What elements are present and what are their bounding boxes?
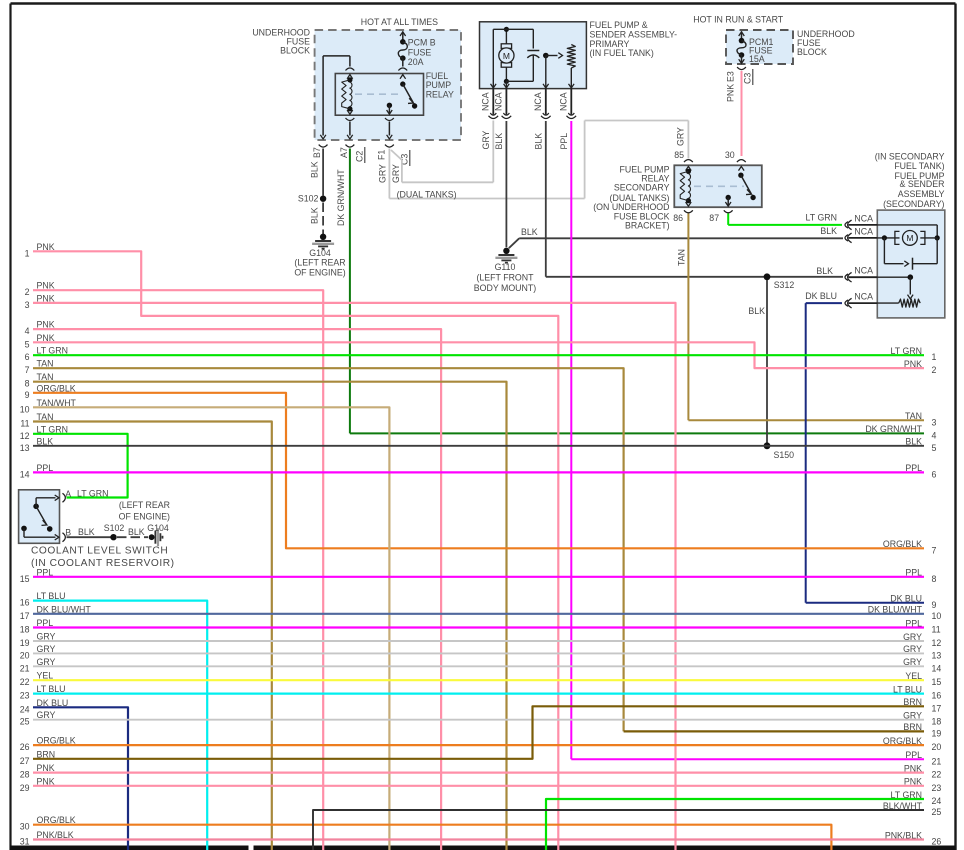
svg-text:24: 24: [20, 704, 30, 714]
label BLK (S312-S150 wire): [748, 306, 765, 316]
svg-text:BLK: BLK: [748, 306, 765, 316]
svg-text:30: 30: [725, 150, 735, 160]
svg-text:PPL: PPL: [559, 133, 569, 150]
wire DK BLU secondary sender to right row 9: [806, 303, 924, 603]
svg-text:COOLANT LEVEL SWITCH: COOLANT LEVEL SWITCH: [31, 546, 168, 557]
connector label C3 (primary): [400, 150, 410, 166]
svg-text:BLK: BLK: [820, 226, 837, 236]
svg-text:22: 22: [932, 770, 942, 780]
right wire 8 label: [905, 568, 936, 584]
underhood fuse block (PCM1, dashed box): [726, 30, 793, 64]
svg-text:& SENDER: & SENDER: [900, 179, 945, 189]
svg-text:14: 14: [20, 469, 30, 479]
svg-text:GRY: GRY: [37, 644, 56, 654]
svg-text:NCA: NCA: [854, 266, 873, 276]
label COOLANT LEVEL SWITCH (IN COOLANT RESERVOIR): [31, 546, 175, 570]
svg-text:16: 16: [932, 691, 942, 701]
svg-text:21: 21: [20, 663, 30, 673]
labels NCA (primary pump): [481, 92, 569, 111]
svg-text:C3: C3: [743, 73, 753, 84]
motor M2 secondary fuel pump: [877, 225, 940, 245]
svg-text:BLK: BLK: [521, 227, 538, 237]
left wire 31 label: [20, 830, 74, 847]
label GRY (F1 wire): [378, 164, 388, 183]
label (LEFT REAR OF ENGINE) (coolant): [119, 500, 170, 522]
capacitor C1 primary: [527, 51, 539, 62]
svg-text:17: 17: [20, 611, 30, 621]
left wire 14 label: [20, 463, 54, 480]
fuse PCM B 20A: [398, 32, 407, 67]
right wire 3 label: [905, 411, 936, 427]
right wire 16 label: [893, 684, 941, 700]
svg-text:GRY: GRY: [481, 130, 491, 149]
svg-text:(IN FUEL TANK): (IN FUEL TANK): [590, 48, 654, 58]
svg-text:DK BLU: DK BLU: [805, 291, 837, 301]
svg-text:(ON UNDERHOOD: (ON UNDERHOOD: [593, 202, 669, 212]
left wire 8 label: [25, 372, 54, 389]
capacitor C2 secondary loop: [884, 238, 937, 270]
left wire 24 label: [20, 698, 69, 715]
svg-text:19: 19: [932, 728, 942, 738]
label DK GRN/WHT (A7 wire): [336, 169, 346, 226]
svg-text:M: M: [906, 233, 913, 243]
svg-text:20: 20: [932, 742, 942, 752]
svg-text:28: 28: [20, 770, 30, 780]
svg-text:BLK: BLK: [128, 527, 145, 537]
svg-text:20A: 20A: [408, 57, 424, 67]
connector label C3 (PCM1): [743, 69, 753, 85]
left wire 29 label: [20, 776, 55, 793]
svg-text:(IN COOLANT RESERVOIR): (IN COOLANT RESERVOIR): [31, 558, 175, 569]
relay U2 fuel pump relay secondary box: [674, 165, 762, 207]
svg-text:S150: S150: [774, 450, 795, 460]
svg-text:OF ENGINE): OF ENGINE): [119, 512, 170, 522]
labels GRY BLK BLK PPL (primary pump wires): [481, 130, 569, 149]
wire PPL primary sender to right row 21: [571, 121, 924, 759]
svg-text:21: 21: [932, 756, 942, 766]
left wire 6 label: [25, 346, 68, 363]
left wire 7 label: [25, 359, 54, 376]
left wire 18 label: [20, 618, 54, 635]
svg-text:NCA: NCA: [481, 92, 491, 111]
svg-text:8: 8: [25, 379, 30, 389]
wire 21 GRY to right row 14: [33, 665, 924, 667]
label TAN (relay 86 wire): [677, 249, 687, 266]
label LT GRN (pin A wire): [77, 489, 108, 499]
wire LT GRN into secondary box: [0, 0, 1, 1]
wire 4 PNK: [33, 329, 441, 850]
svg-text:PCM B: PCM B: [408, 37, 436, 47]
svg-text:15: 15: [932, 677, 942, 687]
wire BLK primary pump 2 to S312: [546, 121, 843, 277]
labels LT GRN BLK BLK DK BLU (secondary box wires): [805, 213, 837, 301]
pin 87 connector: [709, 210, 732, 223]
wire LT GRN bottom to right row 24: [546, 799, 924, 850]
svg-text:25: 25: [932, 807, 942, 817]
wire 17 DK BLU/WHT to right row 10: [33, 613, 924, 615]
svg-text:GRY: GRY: [391, 164, 401, 183]
svg-text:3: 3: [932, 417, 937, 427]
label (IN SECONDARY FUEL TANK) FUEL PUMP & SENDER ASSEMBLY (SECONDARY): [875, 151, 945, 209]
svg-text:13: 13: [20, 443, 30, 453]
right wire 18 label: [903, 711, 941, 727]
svg-text:27: 27: [20, 756, 30, 766]
pin label F1: [377, 150, 387, 160]
relay primary pin arrows at box edges: [346, 68, 408, 121]
svg-text:13: 13: [932, 650, 942, 660]
svg-text:G110: G110: [495, 262, 516, 272]
wire 20 GRY to right row 13: [33, 652, 924, 654]
right wire 9 label: [890, 594, 936, 610]
right wire 25 label: [883, 801, 942, 817]
svg-text:GRY: GRY: [37, 657, 56, 667]
labels NCA (secondary box): [854, 214, 873, 302]
svg-text:3: 3: [25, 300, 30, 310]
svg-text:G104: G104: [309, 248, 331, 258]
left wire 1 label: [25, 242, 55, 258]
label PCM B FUSE 20A: [408, 37, 436, 67]
svg-text:23: 23: [20, 691, 30, 701]
svg-text:11: 11: [932, 625, 941, 635]
svg-text:31: 31: [20, 837, 30, 847]
svg-text:FUEL TANK): FUEL TANK): [894, 161, 944, 171]
label BLK (S102-G104 coolant): [128, 527, 145, 537]
svg-text:GRY: GRY: [676, 127, 686, 146]
label BLK (G110 bus): [521, 227, 538, 237]
svg-text:TAN: TAN: [905, 411, 922, 421]
svg-text:18: 18: [20, 625, 30, 635]
svg-text:NCA: NCA: [854, 214, 873, 224]
right wire 26 label: [885, 830, 942, 846]
right wire 11 label: [905, 618, 940, 634]
label FUEL PUMP & SENDER ASSEMBLY-PRIMARY (IN FUEL TANK): [590, 20, 678, 58]
splice S150: [764, 442, 795, 460]
wire LT GRN relay 87 to secondary pump: [728, 214, 842, 225]
label FUEL PUMP RELAY SECONDARY (DUAL TANKS) (ON UNDERHOOD FUSE BLOCK BRACKET): [593, 164, 669, 230]
svg-text:GRY: GRY: [378, 164, 388, 183]
left wire 12 label: [20, 424, 68, 441]
fuse PCM1 15A: [737, 32, 746, 70]
wire 2 PNK: [33, 290, 323, 850]
svg-text:7: 7: [25, 365, 30, 375]
label G104 (coolant): [147, 523, 169, 533]
bottom border bar: [10, 846, 956, 850]
svg-text:11: 11: [20, 419, 29, 429]
svg-text:BLK: BLK: [533, 133, 543, 150]
svg-text:5: 5: [25, 339, 30, 349]
right wire 2 label: [904, 359, 937, 375]
svg-text:DK BLU: DK BLU: [890, 594, 922, 604]
right wire 22 label: [904, 763, 941, 779]
right wire 17 label: [903, 697, 941, 713]
label G110 (LEFT FRONT BODY MOUNT): [474, 262, 536, 293]
svg-text:M: M: [503, 51, 510, 61]
connector label C2: [355, 147, 365, 163]
wire DK GRN/WHT A7 to right row 4: [350, 149, 924, 434]
left wire 9 label: [25, 383, 76, 400]
coolant switch pin arrows: [55, 493, 66, 541]
svg-text:DK GRN/WHT: DK GRN/WHT: [865, 424, 922, 434]
svg-text:RELAY: RELAY: [426, 89, 454, 99]
svg-text:HOT AT ALL TIMES: HOT AT ALL TIMES: [361, 17, 438, 27]
svg-text:E3: E3: [726, 71, 736, 82]
splice S312: [764, 273, 795, 290]
relay secondary coil: [680, 169, 691, 203]
relay primary internal dashed link: [355, 93, 399, 95]
splice S102 (coolant): [104, 523, 125, 540]
label GRY (C3 wire): [391, 164, 401, 183]
wire 18 PPL to right row 11: [33, 626, 924, 628]
fuse block bottom edge exit arrows: [319, 135, 394, 147]
wire BLK S312 to S150: [766, 280, 768, 446]
left wire 22 label: [20, 671, 54, 688]
svg-text:NCA: NCA: [494, 92, 504, 111]
left wire 10 label: [20, 398, 77, 415]
svg-text:17: 17: [932, 703, 942, 713]
svg-text:(LEFT REAR: (LEFT REAR: [294, 258, 345, 268]
left wire 30 label: [20, 815, 76, 832]
right wire 24 label: [891, 790, 942, 806]
svg-text:HOT IN RUN & START: HOT IN RUN & START: [693, 15, 784, 25]
label FUEL PUMP RELAY (primary): [426, 71, 454, 99]
wire 9 ORG/BLK to right row 7: [33, 393, 924, 549]
relay secondary switch: [726, 173, 756, 206]
svg-text:SECONDARY: SECONDARY: [614, 183, 670, 193]
wire 15 PPL to right row 8: [33, 576, 924, 578]
svg-text:F1: F1: [377, 150, 387, 160]
label UNDERHOOD FUSE BLOCK (left): [252, 27, 310, 55]
svg-text:ASSEMBLY: ASSEMBLY: [898, 189, 945, 199]
label PNK (PCM1 wire): [726, 84, 736, 102]
svg-text:29: 29: [20, 783, 30, 793]
svg-text:NCA: NCA: [533, 92, 543, 111]
wire BLK dashed S102 to G104: [322, 203, 324, 235]
right wire 10 label: [868, 605, 942, 621]
svg-text:20: 20: [20, 650, 30, 660]
svg-text:30: 30: [20, 822, 30, 832]
relay secondary internal dashed link: [694, 185, 744, 187]
right wire 5 label: [905, 437, 936, 453]
resistor R1 fuel level sender primary: [567, 45, 575, 89]
svg-text:PPL: PPL: [905, 750, 922, 760]
wire 6 LT GRN to right row 1: [33, 354, 924, 356]
wire 22 YEL to right row 15: [33, 679, 924, 681]
right wire 15 label: [905, 671, 941, 687]
wire 26 ORG/BLK to right row 20: [33, 744, 924, 746]
fuel pump and sender assembly secondary box: [877, 210, 945, 318]
left wire 27 label: [20, 749, 55, 766]
wire GRY C3 branch to primary pump GRY: [391, 121, 493, 183]
left wire 2 label: [25, 281, 55, 298]
left wire 13 label: [20, 436, 54, 453]
pin label A: [65, 489, 71, 499]
svg-text:NCA: NCA: [559, 92, 569, 111]
relay primary coil: [342, 77, 353, 111]
wire GRY F1 to relay 85 (DUAL TANKS): [389, 121, 688, 199]
label G104 (LEFT REAR OF ENGINE): [294, 248, 345, 277]
left wire 25 label: [20, 710, 56, 727]
wire 31 PNK/BLK to right row 26: [33, 838, 924, 840]
svg-text:4: 4: [25, 326, 30, 336]
connector NCA symbols (primary pump): [489, 113, 577, 119]
svg-text:BLK: BLK: [494, 133, 504, 150]
splice S102 (engine): [298, 194, 326, 204]
svg-text:1: 1: [25, 248, 30, 258]
svg-text:BLOCK: BLOCK: [280, 46, 310, 56]
svg-text:10: 10: [20, 404, 30, 414]
svg-text:6: 6: [25, 352, 30, 362]
primary pump box exit arrows: [491, 84, 575, 88]
svg-text:8: 8: [932, 574, 937, 584]
wire 25 GRY to right row 18: [33, 719, 924, 721]
svg-text:14: 14: [932, 663, 942, 673]
svg-text:BLK: BLK: [78, 527, 95, 537]
svg-text:C2: C2: [355, 151, 365, 162]
wire BLK B7 to S102: [322, 149, 324, 196]
svg-text:4: 4: [932, 430, 937, 440]
left wire 17 label: [20, 604, 92, 621]
svg-text:S102: S102: [298, 194, 319, 204]
svg-text:(LEFT REAR: (LEFT REAR: [119, 500, 170, 510]
wire 8 TAN: [33, 382, 507, 850]
relay secondary pin arrows: [686, 166, 745, 206]
wire 23 LT BLU to right row 16: [33, 692, 924, 694]
svg-text:19: 19: [20, 638, 30, 648]
right wire 6 label: [905, 463, 936, 479]
svg-text:FUSE: FUSE: [408, 48, 432, 58]
svg-text:6: 6: [932, 469, 937, 479]
wire 7 TAN to right row 19 BRN: [33, 368, 924, 731]
label BLK (pin B wire): [78, 527, 95, 537]
svg-text:2: 2: [25, 287, 30, 297]
right wire 4 label: [865, 424, 936, 440]
left wire 4 label: [25, 320, 55, 337]
svg-text:24: 24: [932, 796, 942, 806]
svg-text:7: 7: [932, 545, 937, 555]
svg-text:BLOCK: BLOCK: [797, 47, 827, 57]
svg-text:PNK: PNK: [726, 84, 736, 102]
svg-text:BLK: BLK: [816, 266, 833, 276]
wire 24 DK BLU: [33, 707, 128, 850]
svg-text:26: 26: [20, 742, 30, 752]
label PCM1 FUSE 15A: [749, 37, 774, 64]
label GRY (relay 85 wire): [676, 127, 686, 146]
svg-text:TAN: TAN: [677, 249, 687, 266]
svg-text:18: 18: [932, 717, 942, 727]
svg-text:G104: G104: [147, 523, 169, 533]
svg-text:(DUAL TANKS): (DUAL TANKS): [397, 189, 457, 199]
wire 19 GRY to right row 12: [33, 640, 924, 642]
wire BLK/WHT bottom to right row 25: [313, 810, 924, 850]
left wire 16 label: [20, 591, 66, 608]
wire 30 ORG/BLK: [33, 825, 831, 850]
right wire 12 label: [903, 632, 941, 648]
label BLK (B7 wire): [310, 161, 320, 178]
wire 11 TAN: [33, 422, 272, 850]
relay primary switch: [387, 81, 418, 113]
right wire 21 label: [905, 750, 941, 766]
wire 12 LT GRN to coolant switch pin A: [33, 434, 128, 498]
svg-text:2: 2: [932, 365, 937, 375]
pin 86 connector: [673, 210, 693, 223]
right wire 13 label: [903, 644, 941, 660]
wire 3 PNK: [33, 303, 676, 850]
svg-text:LT GRN: LT GRN: [77, 489, 108, 499]
svg-text:S312: S312: [774, 280, 795, 290]
svg-text:NCA: NCA: [854, 292, 873, 302]
motor M1 primary fuel pump: [499, 44, 514, 67]
svg-text:B: B: [65, 528, 71, 538]
right wire 23 label: [904, 777, 941, 793]
wire 13 BLK to right row 5: [33, 445, 924, 447]
svg-text:(LEFT FRONT: (LEFT FRONT: [476, 273, 534, 283]
resistor R2 fuel level sender secondary: [877, 299, 920, 307]
svg-text:12: 12: [932, 638, 942, 648]
svg-text:87: 87: [709, 213, 719, 223]
wire 5 PNK to right row 2: [33, 342, 924, 368]
wire BLK dashed S102 to G104 (coolant): [117, 536, 148, 538]
left wire 23 label: [20, 684, 66, 701]
ground G110: [495, 238, 519, 262]
label UNDERHOOD FUSE BLOCK (right): [797, 29, 855, 57]
left wire 19 label: [20, 632, 56, 649]
pin label E3: [726, 71, 736, 82]
svg-text:26: 26: [932, 837, 942, 847]
wire A7 / F1 stubs inside fuse block: [350, 122, 390, 136]
svg-text:1: 1: [932, 352, 937, 362]
sender wiper primary: [543, 53, 563, 89]
pin label B: [65, 528, 71, 538]
left wire 20 label: [20, 644, 56, 661]
wire 29 PNK to right row 23: [33, 785, 924, 787]
svg-text:A: A: [65, 489, 71, 499]
wire PNK PCM1 fuse to relay pin 30: [741, 71, 743, 156]
svg-text:10: 10: [932, 611, 942, 621]
right wire 20 label: [883, 736, 942, 752]
wire 16 LT BLU: [33, 601, 207, 850]
left wire 28 label: [20, 763, 55, 780]
wire BLK coolant pin B to S102: [67, 536, 111, 538]
svg-text:B7: B7: [312, 147, 322, 158]
svg-text:12: 12: [20, 431, 30, 441]
svg-text:NCA: NCA: [854, 227, 873, 237]
svg-text:15A: 15A: [749, 54, 765, 64]
label HOT IN RUN & START: [693, 15, 784, 25]
wire 1 PNK: [33, 251, 558, 850]
wire B7 inside fuse block: [323, 56, 350, 136]
pin label A7: [339, 147, 349, 158]
secondary box connectors NCA: [845, 220, 877, 308]
svg-text:(SECONDARY): (SECONDARY): [883, 199, 944, 209]
wire BLK bus G110 to secondary pump: [519, 237, 843, 239]
sender wiper secondary: [877, 274, 913, 298]
coolant level switch SW1 box: [19, 490, 60, 544]
svg-text:BLK: BLK: [310, 161, 320, 178]
left wire 15 label: [20, 567, 54, 584]
relay U1 fuel pump relay (primary) box: [335, 74, 423, 116]
label BLK (S102 to G104 wire): [310, 207, 320, 224]
svg-text:9: 9: [25, 390, 30, 400]
svg-text:5: 5: [932, 443, 937, 453]
svg-text:BRACKET): BRACKET): [625, 220, 670, 230]
underhood fuse block (primary, dashed box): [315, 30, 461, 140]
svg-text:9: 9: [932, 600, 937, 610]
svg-text:SENDER ASSEMBLY-: SENDER ASSEMBLY-: [590, 30, 678, 40]
left wire 11 label: [20, 412, 53, 429]
wire 14 PPL to right row 6: [33, 471, 924, 473]
svg-text:16: 16: [20, 598, 30, 608]
right wire 14 label: [903, 657, 941, 673]
